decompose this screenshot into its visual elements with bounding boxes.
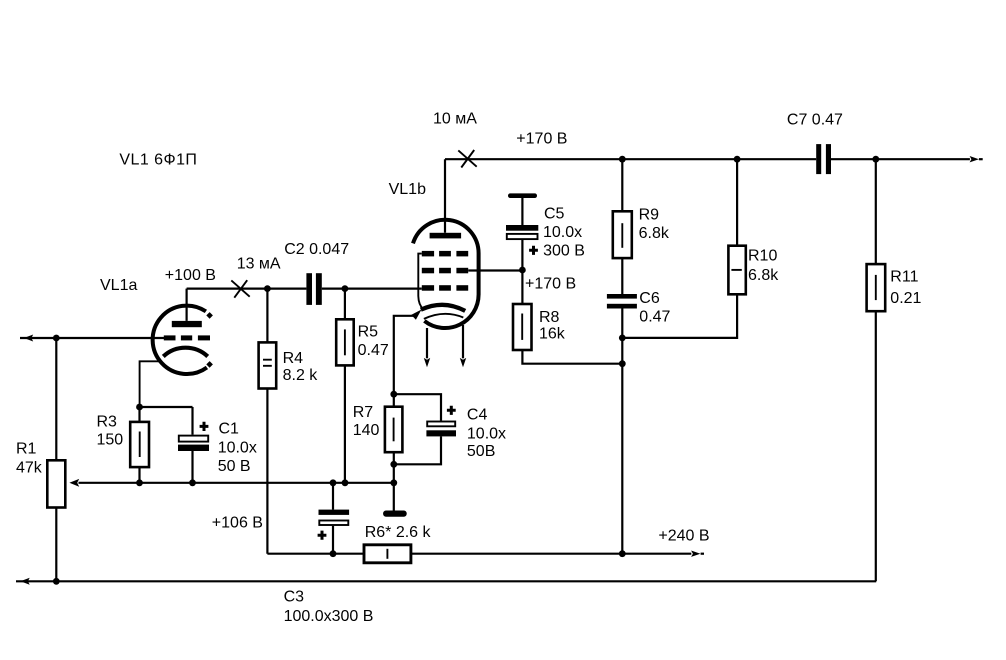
wire: R10 top lead bbox=[736, 159, 738, 246]
svg-text:16k: 16k bbox=[539, 326, 566, 343]
resistor R4 bbox=[259, 342, 277, 388]
wire: C5 bottom lead bbox=[521, 240, 523, 304]
node: R5 bottom on wiper bus bbox=[342, 479, 349, 486]
capacitor C7 left plate bbox=[816, 144, 821, 174]
svg-text:R8: R8 bbox=[539, 309, 560, 326]
capacitor C6 bottom plate bbox=[607, 304, 637, 309]
wire: C3 bottom lead bbox=[332, 526, 334, 554]
svg-text:50B: 50B bbox=[467, 443, 495, 460]
svg-text:C3: C3 bbox=[284, 589, 305, 606]
wire: C1 bottom lead bbox=[191, 451, 193, 483]
wire: VL1a cathode lead bbox=[140, 361, 159, 407]
svg-text:0.47: 0.47 bbox=[639, 309, 670, 326]
wire: C3 top lead bbox=[332, 483, 334, 510]
wire: heater lead left bbox=[426, 328, 428, 358]
resistor R8 bbox=[513, 304, 532, 350]
resistor R10 bbox=[728, 246, 745, 295]
wire: R1 wiper bus y483 bbox=[79, 482, 394, 484]
svg-text:0.21: 0.21 bbox=[890, 290, 921, 307]
R9 power mark bbox=[621, 223, 623, 248]
svg-text:300 В: 300 В bbox=[543, 243, 585, 260]
R6 power mark bbox=[386, 549, 388, 559]
VL1a cathode arc bbox=[163, 348, 207, 357]
capacitor C1 positive plate bbox=[179, 436, 208, 442]
capacitor C7 right plate bbox=[826, 144, 831, 174]
C5 terminal bar bbox=[508, 193, 537, 198]
+240V arrowhead bbox=[691, 551, 700, 557]
label C1 plus bbox=[200, 422, 209, 431]
resistor R1 (potentiometer body) bbox=[47, 460, 65, 507]
heater right arrowhead bbox=[460, 358, 466, 367]
measure point X (13 mA) bbox=[231, 280, 249, 298]
VL1a envelope gap dot lower bbox=[206, 361, 213, 368]
wire: +240V bus left of R6 bbox=[267, 553, 364, 555]
svg-text:10.0x: 10.0x bbox=[218, 440, 257, 457]
wire: R1 top lead bbox=[55, 338, 57, 460]
VL1b grid g3 dashes bbox=[422, 251, 468, 257]
svg-text:C6: C6 bbox=[639, 290, 660, 307]
VL1a anode plate bbox=[172, 321, 202, 327]
terminal bar below R7 bbox=[383, 511, 407, 517]
wire: R9 bottom lead bbox=[621, 258, 623, 294]
svg-text:6.8k: 6.8k bbox=[639, 225, 670, 242]
node: R7/C4 bottom junction bbox=[390, 461, 397, 468]
capacitor C3 negative plate bbox=[319, 510, 350, 515]
svg-text:140: 140 bbox=[353, 422, 380, 439]
node: VL1b cathode / R7 / C4 junction bbox=[390, 391, 397, 398]
svg-text:C4: C4 bbox=[467, 407, 488, 424]
svg-text:R11: R11 bbox=[890, 269, 918, 286]
svg-text:0.47: 0.47 bbox=[358, 342, 389, 359]
capacitor C2 right plate bbox=[316, 273, 322, 305]
svg-text:+170 В: +170 В bbox=[516, 131, 567, 148]
node: C1 bottom on wiper bus bbox=[189, 479, 196, 486]
capacitor C4 positive plate bbox=[427, 422, 455, 427]
label C4 plus bbox=[447, 406, 456, 415]
wire: top +170V rail bbox=[445, 158, 816, 160]
wire: R11 bottom lead bbox=[875, 311, 877, 581]
node: C3 top on wiper bus bbox=[330, 479, 337, 486]
node: R7 bottom on wiper bus bbox=[390, 479, 397, 486]
svg-text:100.0x300 В: 100.0x300 В bbox=[284, 608, 374, 625]
wire: stub to terminal bar bbox=[393, 483, 395, 511]
wire: R4 bottom lead bbox=[266, 389, 268, 554]
wire: C1 top lead bbox=[191, 407, 193, 435]
node: R1 bottom on ground bus bbox=[53, 578, 60, 585]
VL1b heater filament bbox=[424, 314, 463, 319]
wire: input lead at left bbox=[20, 337, 164, 339]
wire: output rail right of C7 bbox=[831, 158, 970, 160]
node: R8/C6 drain on +240 bus bbox=[619, 550, 626, 557]
VL1b cathode arc bbox=[421, 305, 465, 311]
wire: R5 top lead bbox=[344, 289, 346, 320]
wire: junction to C4 top bbox=[394, 394, 441, 420]
R10 power mark bbox=[731, 269, 741, 271]
R5 power mark bbox=[344, 329, 346, 355]
node: R5 top junction bbox=[342, 285, 349, 292]
wire: R8 bottom lead bbox=[522, 350, 622, 364]
R11 power mark bbox=[875, 275, 877, 300]
triode VL1a envelope bbox=[153, 306, 207, 374]
capacitor C3 positive plate bbox=[319, 521, 348, 526]
svg-text:C2 0.047: C2 0.047 bbox=[284, 241, 349, 258]
R7 power mark bbox=[393, 418, 395, 442]
R3 power mark bbox=[139, 432, 141, 458]
svg-text:R5: R5 bbox=[358, 324, 379, 341]
R4 power mark bbox=[263, 360, 272, 366]
svg-text:VL1b: VL1b bbox=[389, 181, 426, 198]
VL1a grid dashes bbox=[164, 335, 210, 340]
svg-text:C5: C5 bbox=[544, 206, 565, 223]
R8 power mark bbox=[521, 314, 523, 340]
measure point X (10 mA) bbox=[458, 150, 476, 168]
VL1a envelope gap dot upper bbox=[206, 312, 213, 319]
C5 polarity plus bbox=[529, 246, 538, 255]
wire: R3 top lead bbox=[138, 407, 140, 422]
capacitor C4 negative plate bbox=[426, 430, 456, 436]
wire: R9 top lead bbox=[621, 159, 623, 211]
capacitor C6 top plate bbox=[607, 294, 637, 299]
svg-text:150: 150 bbox=[97, 432, 124, 449]
wire: output arrow stub bbox=[979, 158, 983, 160]
pentode VL1b envelope bbox=[413, 220, 479, 328]
input arrowhead bbox=[24, 335, 33, 342]
svg-text:R7: R7 bbox=[353, 404, 374, 421]
svg-text:VL1 6Ф1П: VL1 6Ф1П bbox=[119, 152, 197, 169]
C3 polarity plus bbox=[318, 531, 327, 540]
svg-text:R10: R10 bbox=[748, 248, 777, 265]
wire: g2 lead to C5/R8 bbox=[468, 269, 522, 271]
wire: R4 top lead bbox=[266, 289, 268, 343]
capacitor C5 positive plate bbox=[507, 234, 538, 239]
wire: ground bus bottom bbox=[16, 580, 876, 582]
svg-text:13 мА: 13 мА bbox=[237, 256, 281, 273]
wire: C4 bottom lead bbox=[394, 436, 441, 464]
wire: R1 bottom lead bbox=[55, 508, 57, 582]
resistor R3 bbox=[130, 422, 149, 467]
node: R11 top on rail bbox=[872, 156, 879, 163]
node: R3 bottom on wiper bus bbox=[136, 479, 143, 486]
wire: VL1b cathode lead bbox=[394, 316, 415, 394]
svg-text:+240 В: +240 В bbox=[658, 528, 709, 545]
wire: C5 top lead bbox=[521, 198, 523, 225]
node: C3 bottom on +240 bus bbox=[330, 550, 337, 557]
svg-text:47k: 47k bbox=[16, 459, 43, 476]
capacitor C1 negative plate bbox=[178, 445, 209, 451]
capacitor C5 negative plate bbox=[506, 225, 538, 231]
svg-text:50 В: 50 В bbox=[218, 458, 251, 475]
wire: R5 bottom lead bbox=[344, 365, 346, 482]
svg-text:R3: R3 bbox=[97, 414, 118, 431]
svg-text:C1: C1 bbox=[219, 421, 240, 438]
node: R10 top on rail bbox=[734, 156, 741, 163]
node: junction R1 top / input bbox=[53, 335, 60, 342]
svg-text:8.2 k: 8.2 k bbox=[283, 367, 319, 384]
node: R10 return junction bbox=[619, 335, 626, 342]
wire: C6 bottom lead down to +240 bus bbox=[621, 309, 623, 554]
wire: +240V arrow stub bbox=[701, 553, 704, 555]
svg-text:+170 В: +170 В bbox=[525, 275, 576, 292]
node: R8 return junction bbox=[619, 360, 626, 367]
svg-text:R9: R9 bbox=[639, 207, 660, 224]
wire: VL1a anode lead bbox=[186, 289, 188, 321]
resistor R5 bbox=[336, 319, 354, 365]
R1 wiper arrowhead bbox=[69, 479, 79, 487]
wire: R3 to C1 top bbox=[140, 406, 193, 408]
capacitor C2 left plate bbox=[306, 273, 312, 305]
output arrowhead bbox=[970, 156, 979, 162]
svg-text:6.8k: 6.8k bbox=[748, 267, 779, 284]
resistor R11 bbox=[867, 264, 886, 311]
node: R9 top on rail bbox=[619, 156, 626, 163]
VL1b cathode lead arrowhead bbox=[411, 310, 421, 320]
wire: R3 bottom lead bbox=[138, 467, 140, 483]
VL1b grid g2 dashes bbox=[422, 268, 468, 274]
wire: C2 to VL1b grid bbox=[322, 288, 422, 290]
node: R4 top junction bbox=[264, 285, 271, 292]
svg-text:10.0x: 10.0x bbox=[543, 224, 582, 241]
svg-text:VL1a: VL1a bbox=[100, 277, 137, 294]
wire: +240V bus right of R6 bbox=[411, 553, 691, 555]
svg-text:10 мА: 10 мА bbox=[433, 110, 477, 127]
VL1b grid g1 dashes bbox=[422, 285, 468, 291]
node: cathode/R3/C1 junction bbox=[136, 404, 143, 411]
wire: R11 top lead bbox=[875, 159, 877, 264]
wire: R7 bottom lead bbox=[393, 452, 395, 483]
wire: VL1b anode lead bbox=[444, 159, 446, 233]
resistor R7 bbox=[385, 407, 403, 453]
wire: heater lead right bbox=[462, 325, 464, 358]
svg-text:R4: R4 bbox=[283, 350, 304, 367]
svg-text:R1: R1 bbox=[16, 441, 37, 458]
wire: R10 bottom return bbox=[622, 294, 737, 338]
wire: g3 tie lead bbox=[418, 254, 423, 310]
node: g2/C5/R8 junction bbox=[519, 267, 526, 274]
svg-text:+106 В: +106 В bbox=[212, 515, 263, 532]
wire: VL1a anode to C2 bbox=[187, 288, 307, 290]
svg-text:+100 В: +100 В bbox=[165, 267, 216, 284]
heater left arrowhead bbox=[424, 358, 430, 367]
svg-text:10.0x: 10.0x bbox=[467, 426, 506, 443]
wire: R7 top lead bbox=[393, 394, 395, 407]
VL1b anode plate bbox=[430, 233, 462, 239]
ground bus arrowhead bbox=[20, 578, 29, 585]
svg-text:R6* 2.6 k: R6* 2.6 k bbox=[365, 524, 432, 541]
svg-text:C7 0.47: C7 0.47 bbox=[787, 112, 843, 129]
resistor R9 bbox=[613, 211, 632, 258]
resistor R6 bbox=[364, 545, 411, 563]
